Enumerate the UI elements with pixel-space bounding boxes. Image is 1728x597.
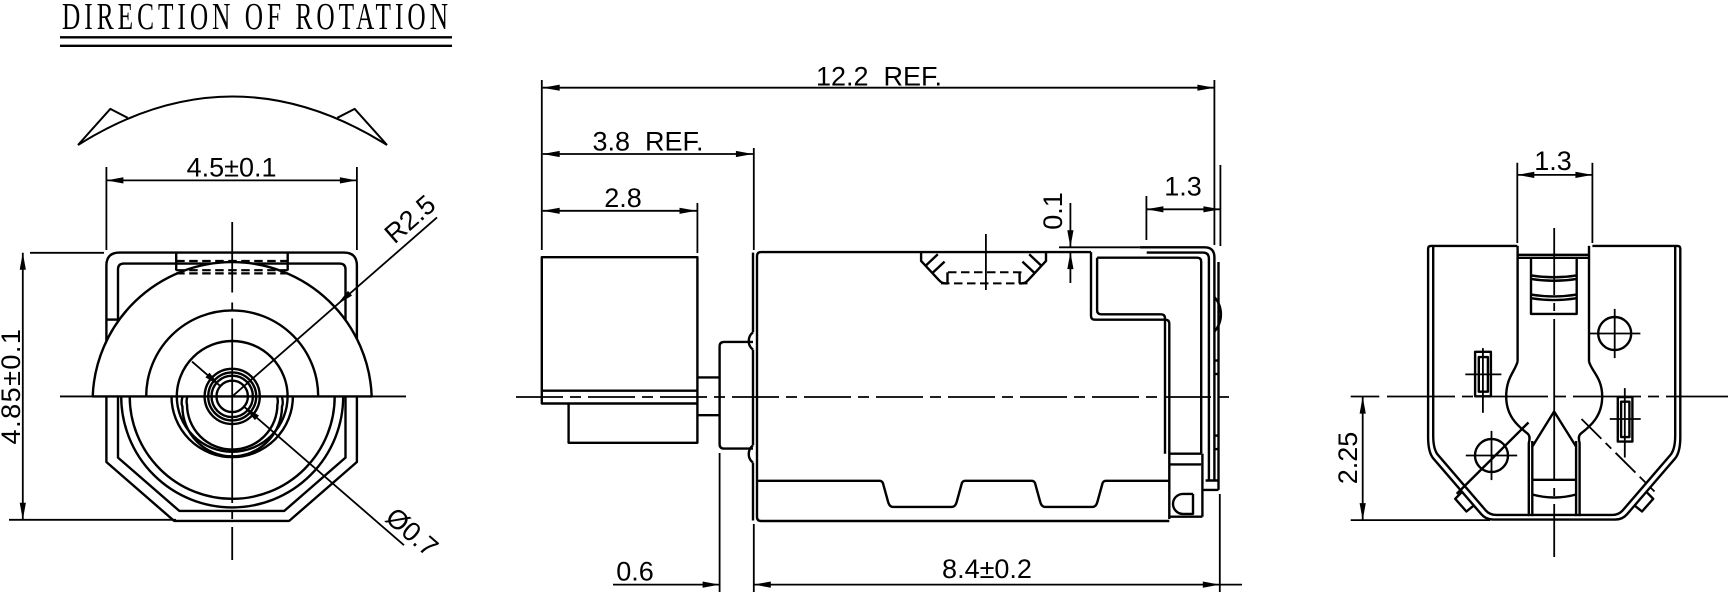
middle view: notch hatch right <box>1022 254 1041 273</box>
middle view: cap bottom plate <box>1169 516 1202 518</box>
middle view: brush housing lines <box>1169 453 1201 455</box>
svg-text:3.8 REF.: 3.8 REF. <box>592 126 703 156</box>
left view: edge tick <box>106 318 118 320</box>
svg-text:1.3: 1.3 <box>1164 172 1202 202</box>
svg-text:2.25: 2.25 <box>1333 432 1363 485</box>
right view: hole circle A <box>1589 309 1640 358</box>
middle view: notch centerline <box>985 234 987 290</box>
svg-text:12.2 REF.: 12.2 REF. <box>816 61 942 91</box>
left view: body outer outline <box>106 253 357 521</box>
dimension 3.8 REF. <box>543 126 754 250</box>
right view: terminal 2 <box>1610 388 1641 457</box>
middle view: top notch window <box>921 252 1046 283</box>
left view: vertical centerline <box>231 222 233 560</box>
right view: body outer outline <box>1428 246 1680 520</box>
middle view: end cap flange outer <box>1140 247 1215 480</box>
left view: hidden dashed lines <box>176 261 288 273</box>
left view: can circle r111 lower <box>121 396 343 507</box>
middle view: notch hidden lines <box>941 272 1030 283</box>
left view: body inner outline <box>118 264 346 511</box>
left view: bearing arc r86 <box>146 310 318 396</box>
right view: neck dish <box>1532 495 1576 498</box>
right view: diagonal fold left <box>1457 423 1529 494</box>
right view: bulb right <box>1579 362 1602 517</box>
left view: can circle r102.5 lower <box>130 396 335 498</box>
right view: chamfer foot left <box>1455 492 1473 511</box>
dimension 1.3 (end view) <box>1517 146 1592 243</box>
dimension 12.2 REF. <box>542 61 1215 250</box>
right view: brush card springs <box>1531 275 1577 300</box>
left view: groove ring r60.7 <box>172 396 293 457</box>
middle view: weight flat bottom edge <box>542 390 698 392</box>
right view: neck cross line <box>1532 479 1576 481</box>
right view: hole circle B <box>1466 431 1517 480</box>
middle view: notch end stubs <box>946 272 948 283</box>
middle view: shaft <box>697 376 719 378</box>
middle view: can crimp tab bottom <box>749 445 753 462</box>
dimension 1.3 (side) <box>1146 165 1220 246</box>
middle view: step shoulder line <box>1097 258 1201 454</box>
dimension 0.1 <box>1038 192 1140 283</box>
left view: groove slot outer <box>182 397 283 457</box>
rotation arc arrow <box>78 97 387 146</box>
right view: slot walls <box>1518 246 1589 362</box>
left view: window edge right <box>287 253 289 271</box>
middle view: can front flange <box>752 253 754 521</box>
right view: chamfer foot right <box>1635 492 1653 511</box>
svg-text:4.85±0.1: 4.85±0.1 <box>0 328 26 445</box>
svg-text:DIRECTION OF ROTATION: DIRECTION OF ROTATION <box>62 0 452 38</box>
middle view: end bell step inner <box>1097 258 1165 454</box>
svg-text:1.3: 1.3 <box>1534 146 1572 176</box>
right view: neck walls <box>1532 441 1576 516</box>
middle view: cap lower vertical <box>1201 454 1203 517</box>
right view: diagonal centerline right <box>1582 419 1655 492</box>
dimension 8.4±0.2 <box>754 494 1242 592</box>
middle view: can body outline <box>757 252 1169 521</box>
leader R2.5 <box>232 189 441 396</box>
middle view: weight outline <box>542 257 698 443</box>
svg-text:0.6: 0.6 <box>616 557 654 587</box>
left view: window edge left <box>175 253 177 271</box>
middle view: end cap flange inner <box>1147 253 1209 481</box>
left view: eccentric weight half disc <box>93 262 372 396</box>
left view: shaft circles <box>217 381 248 412</box>
right view: vertical centerline <box>1553 228 1555 557</box>
right view: slot cross lines <box>1518 254 1589 256</box>
svg-text:0.1: 0.1 <box>1038 192 1068 230</box>
middle view: notch hatch left <box>926 254 945 273</box>
middle view: bearing boss D <box>1173 494 1193 514</box>
dimension 4.85±0.1 <box>0 253 176 520</box>
left view: horizontal centerline <box>60 395 406 397</box>
leader Ø0.7 <box>192 362 444 563</box>
right view: tent <box>1533 412 1576 447</box>
middle view: bottom notch band <box>757 481 1169 507</box>
middle view: can top step <box>1091 252 1169 519</box>
svg-text:8.4±0.2: 8.4±0.2 <box>942 554 1032 584</box>
middle view: bearing bracket <box>720 342 753 449</box>
middle view: terminal strip bulge <box>1214 297 1221 332</box>
middle view: weight step top edge <box>569 402 698 404</box>
dimension 0.6 <box>613 453 754 592</box>
dimension 4.5±0.1 <box>106 153 357 251</box>
svg-text:4.5±0.1: 4.5±0.1 <box>187 153 277 183</box>
dimension 2.25 <box>1333 397 1490 520</box>
middle view: can crimp tab top <box>749 332 753 349</box>
dimension 2.8 <box>543 183 698 253</box>
right view: horizontal centerline <box>1351 396 1380 398</box>
svg-text:2.8: 2.8 <box>604 183 642 213</box>
middle view: horizontal centerline <box>516 396 1233 398</box>
right view: bulb left <box>1506 362 1529 517</box>
right view: terminal 1 <box>1465 348 1501 413</box>
left view: groove slot inner <box>187 397 278 450</box>
title DIRECTION OF ROTATION <box>60 0 452 46</box>
right view: brush card <box>1531 258 1577 314</box>
middle view: terminal plate step <box>1202 262 1218 490</box>
right view: body inner outline <box>1433 246 1675 515</box>
middle view: terminal tick marks <box>1214 359 1218 361</box>
left view: circle r55.4 <box>177 341 288 452</box>
